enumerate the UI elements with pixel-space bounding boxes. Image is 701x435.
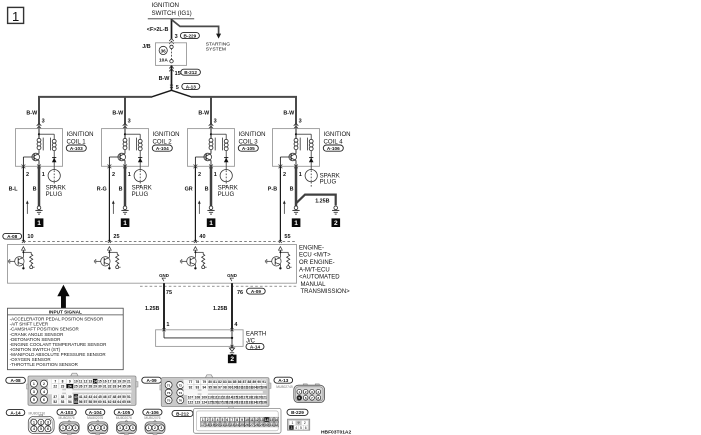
svg-text:2: 2 <box>304 421 306 425</box>
svg-text:A-09: A-09 <box>251 289 262 294</box>
svg-text:A-08: A-08 <box>7 234 18 239</box>
svg-text:ENGINE-: ENGINE- <box>299 245 324 251</box>
svg-text:3: 3 <box>160 426 162 430</box>
svg-text:136: 136 <box>261 401 267 405</box>
svg-text:2: 2 <box>43 382 45 386</box>
svg-text:9: 9 <box>241 418 243 422</box>
svg-text:90: 90 <box>257 380 261 384</box>
ECU driver cell 1 <box>8 250 34 269</box>
svg-text:30: 30 <box>98 385 102 389</box>
svg-text:MU802076: MU802076 <box>144 416 160 420</box>
svg-text:38: 38 <box>61 395 65 399</box>
secondary winding coil 2 <box>138 139 142 150</box>
svg-text:54: 54 <box>68 400 72 404</box>
svg-text:INPUT SIGNAL: INPUT SIGNAL <box>49 309 82 314</box>
svg-text:24: 24 <box>235 423 239 427</box>
svg-text:IGNITION: IGNITION <box>153 131 180 138</box>
svg-text:B: B <box>33 187 37 193</box>
label IGNITION COIL 4 <box>324 131 351 145</box>
svg-text:PLUG: PLUG <box>320 178 337 185</box>
svg-text:24: 24 <box>68 385 72 389</box>
page number 1 <box>8 7 24 24</box>
svg-text:1: 1 <box>128 172 131 178</box>
svg-text:44: 44 <box>93 395 97 399</box>
svg-text:1: 1 <box>12 9 19 24</box>
svg-text:17: 17 <box>201 423 205 427</box>
svg-text:A-09: A-09 <box>147 378 158 383</box>
connector symbol coil 2 <box>123 123 128 129</box>
svg-text:ECU <M/T>: ECU <M/T> <box>299 253 331 259</box>
svg-text:6: 6 <box>305 426 307 430</box>
secondary winding coil 3 <box>224 139 228 150</box>
pin 3 of coil 1 <box>42 119 45 125</box>
wire: coil 3 supply B-W <box>198 111 211 129</box>
arrow on coil 3 control wire <box>198 200 201 214</box>
wire: drop to coil 2 <box>124 96 126 124</box>
svg-text:21: 21 <box>221 423 225 427</box>
pin 5 of A-13 <box>170 85 179 92</box>
wire: supply bus right <box>191 97 296 124</box>
svg-text:2: 2 <box>334 220 338 227</box>
svg-text:36: 36 <box>161 48 167 53</box>
svg-text:81: 81 <box>213 380 217 384</box>
svg-text:<F>2L-B: <F>2L-B <box>147 27 169 33</box>
svg-text:1: 1 <box>123 220 127 227</box>
node: coil 4 primary tap <box>295 129 311 140</box>
transistor Q1 (power stage) <box>23 150 39 167</box>
svg-text:50: 50 <box>122 395 126 399</box>
transistor Q2 (power stage) <box>109 150 125 167</box>
svg-text:MANUAL: MANUAL <box>301 282 327 288</box>
ignition coil 1 box <box>16 129 63 167</box>
wire 1.25B to earth (76) <box>213 283 243 330</box>
svg-text:COIL 2: COIL 2 <box>153 138 173 145</box>
svg-text:83: 83 <box>223 380 227 384</box>
svg-text:74: 74 <box>179 391 183 395</box>
connector A-09 label (earth wire) <box>247 288 266 294</box>
svg-text:22: 22 <box>225 423 229 427</box>
svg-text:B-212: B-212 <box>176 411 189 416</box>
wire: coil 4 supply B-W <box>283 111 296 129</box>
svg-text:5: 5 <box>300 426 302 430</box>
svg-text:31: 31 <box>103 385 107 389</box>
svg-text:16: 16 <box>103 380 107 384</box>
svg-text:2: 2 <box>68 426 70 430</box>
svg-text:PLUG: PLUG <box>218 191 235 198</box>
svg-text:B: B <box>290 187 294 193</box>
wire: coil 1 supply B-W <box>26 111 39 129</box>
svg-text:89: 89 <box>252 380 256 384</box>
svg-text:4: 4 <box>295 426 297 430</box>
connector A-106 label <box>323 145 343 151</box>
svg-text:1.25B: 1.25B <box>213 306 227 312</box>
svg-text:56: 56 <box>79 400 83 404</box>
connector symbol coil 4 <box>294 123 299 129</box>
connector B-212 label <box>181 69 201 75</box>
svg-text:15: 15 <box>175 71 181 77</box>
svg-text:9: 9 <box>69 380 71 384</box>
svg-text:MU802076: MU802076 <box>59 416 75 420</box>
svg-text:16: 16 <box>275 418 279 422</box>
svg-text:IGNITION: IGNITION <box>324 131 351 138</box>
pin 1 of coil 4 <box>294 165 302 179</box>
svg-text:2: 2 <box>97 426 99 430</box>
svg-text:7: 7 <box>54 380 56 384</box>
svg-text:3: 3 <box>212 418 214 422</box>
svg-text:60: 60 <box>98 400 102 404</box>
svg-text:COIL 3: COIL 3 <box>239 138 259 145</box>
wire R-G (coil 2 control) <box>97 166 110 241</box>
svg-text:IGNITION: IGNITION <box>67 131 94 138</box>
svg-text:P-B: P-B <box>268 187 277 193</box>
connector A-105 label <box>238 145 258 151</box>
earth J/C pin 4 <box>234 322 238 328</box>
secondary winding coil 4 <box>309 139 313 150</box>
svg-text:36: 36 <box>127 385 131 389</box>
svg-text:8: 8 <box>236 418 238 422</box>
svg-text:5: 5 <box>33 398 35 402</box>
svg-text:A-103: A-103 <box>60 410 73 415</box>
svg-text:41: 41 <box>79 395 83 399</box>
label IGNITION COIL 2 <box>153 131 180 145</box>
connector A-103 label <box>66 145 86 151</box>
wire B (coil 1 ground lead) <box>33 166 39 206</box>
svg-text:88: 88 <box>248 380 252 384</box>
ignition coil 3 box <box>188 129 235 167</box>
ECU pin 40 <box>194 234 206 243</box>
svg-text:15: 15 <box>98 380 102 384</box>
svg-text:15: 15 <box>270 418 274 422</box>
wire: ignition switch to J/B fuse <box>171 19 173 39</box>
svg-text:A-105: A-105 <box>242 146 255 151</box>
svg-text:23: 23 <box>230 423 234 427</box>
ground ref 2 (coil 4 branch) <box>332 218 341 227</box>
svg-text:1.25B: 1.25B <box>145 306 159 312</box>
svg-text:5: 5 <box>221 418 223 422</box>
svg-text:22: 22 <box>53 385 57 389</box>
svg-text:37: 37 <box>53 395 57 399</box>
primary winding coil 1 <box>37 138 41 149</box>
svg-text:10A: 10A <box>159 58 168 64</box>
svg-text:79: 79 <box>202 380 206 384</box>
ground ref 2 (earth) <box>228 355 237 364</box>
svg-text:A-13: A-13 <box>186 84 197 89</box>
diode D1 <box>52 151 57 167</box>
transformer core coil 3 <box>215 138 222 151</box>
transformer core coil 1 <box>43 138 50 151</box>
junction block J/B <box>142 43 186 66</box>
ECU input pin triangle 4 <box>279 247 283 251</box>
svg-text:14: 14 <box>265 418 269 422</box>
svg-text:45: 45 <box>98 395 102 399</box>
spark plug 3 <box>218 166 238 197</box>
svg-text:106: 106 <box>261 385 267 389</box>
svg-text:EARTH: EARTH <box>246 331 266 337</box>
svg-text:5: 5 <box>40 427 42 431</box>
connector symbol coil 1 <box>37 123 42 129</box>
ground ref 1 (coil 1) <box>35 218 44 227</box>
label: starting system <box>206 41 230 52</box>
ground symbol (1.25B branch) <box>332 206 339 214</box>
wire label 2L-B <box>147 27 169 33</box>
ground ref 1 (coil 4) <box>292 218 301 227</box>
svg-text:20: 20 <box>122 380 126 384</box>
svg-text:2: 2 <box>230 356 234 363</box>
node: coil 1 primary tap <box>38 129 54 140</box>
svg-text:1: 1 <box>91 426 93 430</box>
node: coil 2 primary tap <box>124 129 140 140</box>
svg-text:86: 86 <box>238 380 242 384</box>
svg-text:93: 93 <box>196 385 200 389</box>
svg-text:14: 14 <box>93 380 97 384</box>
svg-text:47: 47 <box>108 395 112 399</box>
pin 2 of coil 4 <box>279 165 287 179</box>
svg-text:1: 1 <box>299 172 302 178</box>
ground symbol coil 3 <box>207 206 214 214</box>
ECU driver cell 2 <box>94 250 120 269</box>
connector B-229 label <box>180 33 199 39</box>
svg-text:98: 98 <box>223 385 227 389</box>
svg-text:B-W: B-W <box>198 111 210 117</box>
svg-text:1: 1 <box>42 172 45 178</box>
connector A-08 <box>6 373 138 405</box>
svg-text:19: 19 <box>211 423 215 427</box>
ground ref 1 (coil 2) <box>121 218 130 227</box>
svg-text:B-L: B-L <box>9 187 19 193</box>
label IGNITION COIL 1 <box>67 131 94 145</box>
svg-text:76: 76 <box>179 399 183 403</box>
svg-text:A-13: A-13 <box>278 378 289 383</box>
svg-text:2: 2 <box>207 418 209 422</box>
svg-text:MU802076: MU802076 <box>87 416 103 420</box>
pin 2 of coil 1 <box>22 165 30 179</box>
svg-text:3: 3 <box>290 426 292 430</box>
ECU input pin triangle 1 <box>22 247 26 251</box>
svg-text:122: 122 <box>188 401 194 405</box>
transformer core coil 4 <box>300 138 307 151</box>
svg-text:10: 10 <box>74 380 78 384</box>
svg-text:23: 23 <box>61 385 65 389</box>
engine ECU harness boundary (bottom) <box>140 285 297 287</box>
svg-text:58: 58 <box>88 400 92 404</box>
svg-text:11: 11 <box>79 380 83 384</box>
svg-text:7: 7 <box>231 418 233 422</box>
svg-text:92: 92 <box>189 385 193 389</box>
svg-text:87: 87 <box>243 380 247 384</box>
svg-text:31: 31 <box>270 423 274 427</box>
earth joint connector A-14 box <box>156 330 267 347</box>
svg-text:2: 2 <box>26 172 29 178</box>
connector A-103 <box>57 409 79 434</box>
ECU pin 25 <box>108 234 120 243</box>
svg-text:2: 2 <box>283 172 286 178</box>
svg-text:11: 11 <box>250 418 254 422</box>
diode D3 <box>224 151 229 167</box>
svg-text:121: 121 <box>261 396 267 400</box>
ECU pin 10 <box>22 234 34 243</box>
svg-text:57: 57 <box>84 400 88 404</box>
ECU name text <box>299 245 350 295</box>
svg-text:A-103: A-103 <box>70 146 83 151</box>
ignition coil 4 box <box>273 129 320 167</box>
pin 3 of coil 2 <box>128 119 131 125</box>
ECU input pin triangle 3 <box>194 247 198 251</box>
svg-text:3: 3 <box>214 119 217 125</box>
ignition switch label <box>148 2 194 19</box>
svg-text:94: 94 <box>202 385 206 389</box>
svg-text:12: 12 <box>255 418 259 422</box>
svg-text:IGNITION: IGNITION <box>239 131 266 138</box>
svg-text:1: 1 <box>202 418 204 422</box>
wire P-B (coil 4 control) <box>268 166 281 241</box>
svg-text:43: 43 <box>88 395 92 399</box>
svg-text:12: 12 <box>84 380 88 384</box>
connector symbol coil 3 <box>209 123 214 129</box>
arrow on coil 1 control wire <box>26 200 29 214</box>
svg-text:B: B <box>205 187 209 193</box>
svg-text:84: 84 <box>228 380 232 384</box>
spark plug 4 <box>305 166 340 186</box>
ground ref 1 (coil 3) <box>207 218 216 227</box>
svg-text:A-104: A-104 <box>89 410 102 415</box>
svg-text:66: 66 <box>127 400 131 404</box>
svg-text:20: 20 <box>216 423 220 427</box>
svg-text:55: 55 <box>284 234 290 240</box>
svg-text:A-106: A-106 <box>327 146 340 151</box>
primary winding coil 4 <box>294 138 298 149</box>
svg-text:10: 10 <box>27 234 33 240</box>
svg-text:29: 29 <box>93 385 97 389</box>
svg-text:46: 46 <box>103 395 107 399</box>
ignition coil 2 box <box>102 129 149 167</box>
svg-text:3: 3 <box>47 421 49 425</box>
svg-text:72: 72 <box>179 383 183 387</box>
wire: branch to starting system <box>172 20 222 39</box>
svg-text:2: 2 <box>154 426 156 430</box>
svg-text:4: 4 <box>43 390 45 394</box>
engine ECU box <box>8 245 297 284</box>
earth ground symbol <box>229 346 234 354</box>
svg-text:1: 1 <box>209 220 213 227</box>
svg-text:3: 3 <box>103 426 105 430</box>
fuse 36 (10A) <box>159 45 173 64</box>
svg-text:SWITCH (IG1): SWITCH (IG1) <box>152 10 192 17</box>
svg-text:64: 64 <box>117 400 121 404</box>
diode D2 <box>138 151 143 167</box>
svg-text:25: 25 <box>113 234 119 240</box>
svg-text:3: 3 <box>299 119 302 125</box>
svg-text:3: 3 <box>128 119 131 125</box>
pin 2 of coil 3 <box>194 165 202 179</box>
svg-text:28: 28 <box>255 423 259 427</box>
svg-text:B-W: B-W <box>26 111 38 117</box>
ECU driver cell 4 <box>265 250 291 269</box>
primary winding coil 2 <box>123 138 127 149</box>
svg-text:3: 3 <box>42 119 45 125</box>
svg-text:76: 76 <box>237 290 243 296</box>
svg-text:J/B: J/B <box>142 44 150 50</box>
arrow on coil 2 control wire <box>112 200 115 214</box>
connector B-229 <box>287 409 310 430</box>
svg-text:25: 25 <box>240 423 244 427</box>
pin 1 of coil 2 <box>123 165 131 179</box>
svg-text:75: 75 <box>166 290 172 296</box>
svg-text:34: 34 <box>117 385 121 389</box>
svg-text:124: 124 <box>202 401 208 405</box>
svg-text:PLUG: PLUG <box>46 191 63 198</box>
svg-text:3: 3 <box>33 390 35 394</box>
svg-text:91: 91 <box>262 380 266 384</box>
svg-text:A-08: A-08 <box>11 378 22 383</box>
connector symbol at B-229 <box>169 38 174 44</box>
svg-text:A-14: A-14 <box>10 410 21 415</box>
wire: supply bus left <box>39 97 152 124</box>
connector B-212 <box>172 407 281 433</box>
svg-text:R-G: R-G <box>97 187 107 193</box>
svg-text:63: 63 <box>113 400 117 404</box>
svg-text:97: 97 <box>218 385 222 389</box>
svg-text:53: 53 <box>61 400 65 404</box>
svg-text:48: 48 <box>113 395 117 399</box>
svg-text:2: 2 <box>198 172 201 178</box>
svg-text:PLUG: PLUG <box>132 191 149 198</box>
label IGNITION COIL 3 <box>239 131 266 145</box>
pin 1 of coil 1 <box>37 165 45 179</box>
wire 1.25B branch (coil 4) <box>296 195 336 206</box>
connector A-104 <box>86 409 108 434</box>
pin 3 of coil 4 <box>299 119 302 125</box>
svg-text:107: 107 <box>188 396 194 400</box>
svg-text:123: 123 <box>195 401 201 405</box>
svg-text:27: 27 <box>84 385 88 389</box>
svg-text:A-14: A-14 <box>250 344 261 349</box>
svg-text:29: 29 <box>260 423 264 427</box>
ECU pin 55 <box>279 234 291 243</box>
svg-text:42: 42 <box>84 395 88 399</box>
svg-text:4: 4 <box>33 427 35 431</box>
connector A-13 <box>274 377 325 402</box>
svg-text:77: 77 <box>189 380 193 384</box>
connector symbol at B-212 <box>169 66 174 72</box>
svg-text:OR ENGINE-: OR ENGINE- <box>299 260 335 266</box>
svg-text:2: 2 <box>125 426 127 430</box>
ground symbol coil 4 <box>292 206 299 214</box>
svg-text:1: 1 <box>33 382 35 386</box>
wire 1.25B to earth (75) <box>145 283 172 330</box>
ECU GND pin 76 <box>227 273 237 281</box>
svg-text:18: 18 <box>206 423 210 427</box>
svg-text:1: 1 <box>294 220 298 227</box>
connector A-105 <box>114 409 136 434</box>
svg-text:78: 78 <box>196 380 200 384</box>
diode D4 <box>309 151 314 167</box>
svg-text:75: 75 <box>167 399 171 403</box>
svg-text:95: 95 <box>208 385 212 389</box>
svg-text:27: 27 <box>250 423 254 427</box>
svg-text:40: 40 <box>74 395 78 399</box>
connector A-09 <box>142 375 271 407</box>
pin 1 of coil 3 <box>209 165 217 179</box>
svg-text:5: 5 <box>176 85 179 91</box>
svg-text:55: 55 <box>74 400 78 404</box>
svg-text:2: 2 <box>112 172 115 178</box>
svg-text:-THROTTLE POSITION SENSOR: -THROTTLE POSITION SENSOR <box>10 362 79 367</box>
svg-text:3: 3 <box>132 426 134 430</box>
ground symbol coil 1 <box>35 206 42 214</box>
connector A-13 label <box>182 83 200 89</box>
diagram code <box>321 429 351 435</box>
pin 2 of coil 2 <box>108 165 116 179</box>
